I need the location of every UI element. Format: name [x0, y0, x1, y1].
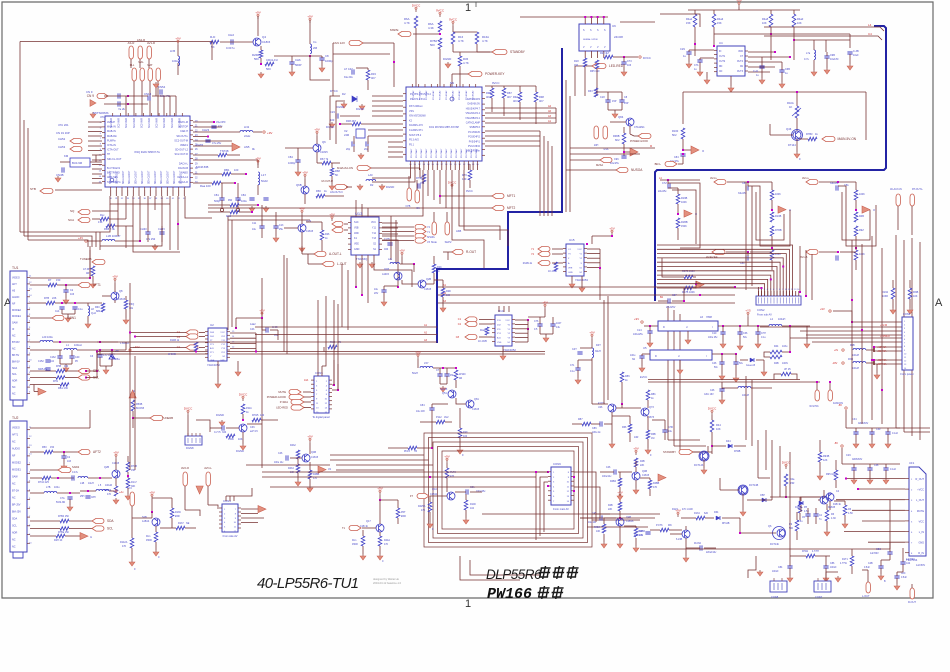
svg-text:30K: 30K — [131, 485, 136, 488]
ground c21 — [761, 78, 763, 80]
svg-text:C84: C84 — [778, 566, 783, 569]
wire bottom right verticals c — [789, 452, 791, 556]
svg-text:C4b: C4b — [250, 328, 255, 331]
wire long horizontal bus a — [97, 351, 545, 353]
svg-text:10u 20V: 10u 20V — [416, 410, 425, 413]
svg-text:4.7TW: 4.7TW — [840, 563, 848, 565]
wire sda2 — [65, 370, 78, 372]
svg-text:C29: C29 — [846, 454, 851, 457]
connector flag MFT2 — [492, 205, 504, 210]
svg-text:R98: R98 — [539, 95, 544, 99]
wire L4 net to border — [764, 27, 884, 31]
resistor Raa — [212, 181, 221, 185]
svg-text:R9B: R9B — [486, 91, 491, 95]
svg-text:MODE1: MODE1 — [12, 469, 22, 472]
wire nf row — [30, 302, 46, 304]
resistor R6Q 10k — [124, 300, 128, 309]
wire adr down — [34, 391, 38, 393]
wire blk3 loop b — [842, 192, 870, 240]
svg-text:R4B: R4B — [859, 215, 864, 218]
wire u4 bottom — [730, 76, 732, 86]
svg-text:22u/25v: 22u/25v — [658, 190, 667, 193]
wire bus A1 left — [255, 326, 437, 328]
svg-text:C39: C39 — [876, 428, 881, 431]
svg-text:OUT1: OUT1 — [719, 56, 726, 58]
svg-text:100u 25v: 100u 25v — [708, 337, 718, 339]
svg-text:500p: 500p — [214, 199, 220, 203]
ground l4 right — [806, 342, 808, 344]
wire bus loop 2 — [429, 438, 588, 543]
svg-text:TU2: TU2 — [12, 416, 19, 420]
svg-text:104: 104 — [470, 507, 475, 510]
potentiometer R10A — [795, 106, 799, 118]
svg-text:NUSOA: NUSOA — [631, 168, 643, 172]
svg-text:R44A: R44A — [384, 539, 390, 542]
resistor R16A 4.7K — [475, 32, 479, 44]
wire blk1 loop — [668, 183, 700, 248]
wire left loop vertical — [19, 42, 21, 233]
svg-text:R4a1: R4a1 — [686, 17, 693, 21]
capacitor C4T — [577, 352, 582, 354]
svg-text:DCT14b: DCT14b — [770, 543, 780, 546]
svg-text:C1B1b: C1B1b — [626, 520, 634, 523]
svg-text:NC: NC — [12, 539, 16, 542]
wire right top bundle down x752 — [751, 186, 753, 286]
capacitor CH23 — [211, 126, 216, 128]
svg-text:AN-OUT-N: AN-OUT-N — [330, 190, 343, 194]
junction rails — [851, 321, 853, 323]
wire q5c vcc — [446, 463, 448, 468]
ground con6 below — [876, 373, 878, 375]
svg-text:C1815: C1815 — [320, 150, 328, 154]
svg-text:22K: 22K — [608, 508, 613, 511]
wire dvcc u6 — [625, 56, 638, 58]
wire crystal — [90, 161, 102, 163]
resistor R38 — [352, 122, 361, 126]
wire q17 base — [362, 527, 376, 529]
wire long vertical right2 — [751, 380, 753, 446]
wire C4 net to border — [764, 36, 882, 40]
svg-text:R4B4: R4B4 — [610, 480, 617, 483]
svg-text:MAT: MAT — [147, 63, 153, 67]
wire power rail 4 — [806, 334, 902, 336]
junction right — [309, 55, 311, 57]
capacitor CN2B — [62, 167, 64, 172]
wire r9b — [796, 512, 798, 520]
resistor R26 1k — [320, 230, 324, 240]
resistor R113 7R — [408, 446, 417, 450]
wire rb1 — [193, 173, 222, 175]
capacitor C8Hb — [85, 496, 90, 498]
wire q6b — [304, 179, 306, 186]
svg-text:470: 470 — [122, 545, 127, 548]
connector flag TUNERB2 — [150, 415, 163, 420]
connector CON5 — [314, 376, 329, 413]
transistor Q24 — [298, 224, 306, 232]
wire CAPU row — [193, 121, 214, 123]
svg-text:designed by Weitai He: designed by Weitai He — [373, 577, 399, 581]
svg-text:150: 150 — [64, 365, 69, 368]
diode D64 — [716, 516, 720, 520]
svg-text:VCC: VCC — [577, 249, 582, 251]
resistor R4B 100N — [770, 355, 782, 359]
transistor Q7a A101B — [608, 404, 616, 412]
ground power caps b — [739, 344, 741, 346]
resistor PCT6 — [660, 528, 669, 532]
wire d64 out — [722, 517, 740, 519]
svg-text:AFT1: AFT1 — [93, 283, 101, 287]
svg-text:R4a0: R4a0 — [797, 17, 804, 21]
capacitor C119 — [418, 183, 420, 188]
connector flag MFT1 — [492, 193, 504, 198]
resistor R74B 15K — [126, 462, 130, 472]
transistor Q6 — [313, 144, 321, 152]
svg-text:R70: R70 — [462, 173, 467, 177]
svg-text:D1845: D1845 — [828, 506, 836, 509]
svg-text:AGDO: AGDO — [12, 296, 19, 299]
wire c47 — [356, 67, 368, 69]
svg-text:R_OUT: R_OUT — [916, 478, 925, 481]
wire fan12v — [363, 42, 394, 44]
capacitor C87 23u — [668, 298, 670, 303]
capacitor C8C tda2 — [900, 562, 905, 564]
resistor R140A 470 — [114, 486, 118, 496]
svg-text:VIDEO: VIDEO — [12, 427, 20, 430]
svg-text:L5Y: L5Y — [424, 361, 429, 365]
inductor L5c 100uR — [96, 489, 109, 491]
wire rh5 — [115, 225, 133, 227]
svg-text:SC2-IN-R: SC2-IN-R — [149, 118, 151, 128]
capacitor C46 GSU — [719, 389, 724, 391]
svg-text:SC2-IN-R: SC2-IN-R — [126, 118, 128, 128]
capacitor C8 15P — [619, 100, 624, 102]
svg-text:C8H: C8H — [91, 497, 96, 499]
connector flag STANDBY mid — [679, 449, 693, 454]
svg-text:SDA: SDA — [107, 519, 114, 523]
connector flag PLL — [132, 68, 136, 81]
power +9V r26 — [331, 218, 333, 221]
wire pin top b — [163, 96, 165, 116]
wire mft2 — [208, 207, 446, 209]
wire c8c2 — [902, 548, 904, 562]
resistor R2H 1K — [56, 534, 65, 538]
wire mid horizontal y216 left — [228, 215, 390, 217]
red arrow blk2 — [778, 206, 786, 213]
ground r1t3a — [429, 522, 431, 524]
connector flag AVO-R — [183, 472, 187, 486]
svg-text:R425A: R425A — [418, 505, 426, 508]
wire plt5 — [465, 494, 467, 500]
svg-text:C4B: C4B — [868, 562, 873, 565]
svg-text:SC2-IN-R: SC2-IN-R — [141, 118, 143, 128]
wire l8 — [87, 303, 89, 306]
svg-text:R4B4: R4B4 — [594, 526, 601, 529]
svg-text:12: 12 — [791, 289, 793, 291]
capacitor C?u14 b — [550, 324, 555, 326]
svg-text:D: D — [663, 326, 665, 329]
ground left flag — [92, 112, 94, 114]
svg-text:0.1u: 0.1u — [570, 370, 575, 373]
wire ic1 bottom right d — [185, 196, 212, 218]
svg-text:POWER-GOOD: POWER-GOOD — [630, 140, 648, 143]
transistor Q2C 2N5401 — [152, 518, 160, 526]
svg-text:STB: STB — [30, 187, 36, 191]
svg-text:150K: 150K — [681, 225, 687, 228]
inductor L9B 100uH rail — [853, 348, 866, 350]
wire con5 top wires — [317, 366, 319, 373]
svg-text:A7.DN5: A7.DN5 — [83, 268, 92, 271]
svg-text:1047: 1047 — [556, 322, 562, 325]
wire right bundle b — [903, 240, 905, 432]
svg-text:C46: C46 — [712, 362, 717, 365]
wire q6w base — [600, 471, 614, 473]
svg-text:LED-RED: LED-RED — [276, 406, 288, 410]
svg-text:Y12: Y12 — [372, 232, 377, 235]
svg-text:680: 680 — [96, 310, 101, 313]
resistor R33L — [366, 70, 370, 80]
wire con2 bend — [196, 420, 210, 432]
wire u11 feed 2 — [395, 220, 397, 264]
svg-text:CH7: CH7 — [761, 332, 766, 335]
svg-text:10u: 10u — [668, 430, 673, 433]
resistor RW1 row a — [230, 203, 239, 207]
connector flag Y2 U11 — [332, 227, 343, 232]
wire u6 down long b — [596, 69, 598, 96]
wire u11 to bus b — [361, 255, 363, 295]
resistor R137 NE — [176, 526, 185, 530]
svg-text:CN 9: CN 9 — [87, 94, 94, 98]
resistor R192 103R — [891, 288, 895, 299]
wire row8 long — [193, 159, 258, 161]
wire c29 — [689, 49, 714, 51]
wire CH6 — [291, 56, 293, 62]
connector flag AV4R-OFF — [712, 249, 725, 254]
power +9V q6b — [304, 176, 306, 179]
svg-text:PC1/54F/D: PC1/54F/D — [468, 131, 480, 134]
svg-text:K1/AMS-5T1: K1/AMS-5T1 — [409, 129, 423, 132]
svg-text:C14: C14 — [637, 329, 642, 332]
inductor L1B — [102, 239, 115, 241]
resistor R4B6b 470 — [648, 480, 652, 489]
connector flag q17 in — [349, 525, 361, 530]
resistor R4B4b — [618, 478, 622, 487]
svg-text:470: 470 — [384, 543, 389, 546]
svg-text:R-OUT: R-OUT — [466, 250, 476, 254]
power +9V upper audio — [401, 254, 403, 257]
resistor R6b 4.3K — [825, 510, 829, 521]
red -18V circle — [842, 362, 844, 364]
connector flag AV1-L blk3 — [806, 179, 818, 184]
svg-text:RNB: RNB — [913, 291, 919, 294]
ground c9b — [826, 68, 828, 70]
wire q5c base — [430, 495, 447, 497]
capacitor C2 aft — [63, 290, 68, 292]
resistor blk2 R7BB — [770, 226, 774, 236]
svg-text:Rnn: Rnn — [146, 535, 151, 538]
ground c6b — [781, 82, 783, 84]
power DVCC clusterB — [785, 466, 787, 469]
svg-text:N5TS06MS: N5TS06MS — [93, 111, 109, 115]
wire cluster to IC right — [310, 56, 330, 80]
svg-text:RNB: RNB — [848, 358, 853, 361]
wire left vert x130 lower — [129, 342, 131, 470]
wire bottom fan of mcu a — [372, 170, 411, 178]
capacitor C7Z 22u — [668, 183, 670, 188]
svg-text:10K: 10K — [596, 530, 601, 533]
multiplexer U15 74HC4053 — [566, 244, 584, 276]
wire tu2 audio 3 — [88, 477, 112, 479]
junction r44 — [711, 445, 713, 447]
capacitor CH83 — [205, 140, 210, 142]
svg-text:MODE2: MODE2 — [12, 462, 22, 465]
ground caps pair — [614, 112, 616, 114]
svg-text:8: 8 — [779, 289, 780, 291]
capacitor C74A — [72, 475, 74, 480]
svg-text:Q81: Q81 — [474, 398, 479, 401]
vertical flag SHP2 — [445, 222, 449, 235]
svg-text:Q2B: Q2B — [426, 278, 431, 281]
capacitor C82 — [235, 198, 240, 200]
ground c8d — [896, 584, 898, 586]
wire green led — [740, 359, 748, 361]
svg-text:BU4.9M: BU4.9M — [72, 161, 83, 165]
svg-text:P5.3 AV2: P5.3 AV2 — [409, 139, 419, 142]
transistor Q5 BCT143 — [739, 486, 747, 494]
wire row7 — [193, 154, 218, 156]
wire bundle right of blue a — [565, 80, 567, 212]
svg-text:NE: NE — [186, 522, 190, 525]
svg-text:XIN M37281M8: XIN M37281M8 — [409, 115, 426, 118]
svg-text:DT144: DT144 — [788, 143, 796, 147]
svg-text:0.5uF: 0.5uF — [901, 577, 907, 579]
resistor R136 — [170, 508, 174, 518]
ground CN54 — [155, 82, 157, 84]
wire c3 — [99, 350, 101, 355]
svg-text:DVCC: DVCC — [330, 89, 338, 93]
ground q con2 — [242, 444, 244, 446]
junction u14 r — [527, 319, 529, 321]
svg-text:DACA-L: DACA-L — [179, 162, 189, 165]
ground c86 bottom — [825, 576, 827, 578]
svg-text:P0.7/AN7: P0.7/AN7 — [465, 148, 468, 158]
connector flag AV1-B blk3 — [806, 249, 818, 254]
junction u2 inputs — [129, 332, 131, 334]
wire u5 gnd stub — [679, 360, 681, 368]
svg-text:CON6: CON6 — [903, 312, 911, 316]
svg-text:1AB1b: 1AB1b — [142, 520, 150, 523]
svg-text:C152: C152 — [38, 360, 44, 363]
wire con5 up bundle a — [317, 300, 319, 366]
wire emitter down — [260, 46, 262, 50]
svg-text:R-D: R-D — [210, 35, 216, 39]
svg-text:0.47u: 0.47u — [72, 471, 79, 474]
svg-text:D4B: D4B — [795, 506, 800, 509]
svg-text:C9B: C9B — [830, 54, 835, 57]
wire caps pair — [607, 92, 609, 100]
ground q4c a — [297, 480, 299, 482]
connector flag POWER-KEY — [468, 71, 482, 76]
ground p49 — [459, 448, 461, 450]
vertical flag aux b — [910, 194, 914, 206]
svg-text:C8C: C8C — [901, 573, 906, 575]
wire q17 c — [379, 500, 381, 524]
junction rw — [251, 211, 253, 213]
wire nf caps gnd — [61, 309, 63, 314]
resistor RH85 100 — [252, 418, 261, 422]
connector TU1 tab — [13, 400, 23, 406]
connector flag MAT — [148, 68, 152, 81]
wire mid verticals x232 — [231, 220, 233, 327]
svg-text:+9V: +9V — [302, 171, 307, 175]
svg-text:+5V: +5V — [542, 301, 547, 305]
svg-text:0206/63V: 0206/63V — [852, 458, 863, 461]
svg-text:SAW1: SAW1 — [67, 316, 76, 320]
svg-text:U4: U4 — [719, 41, 723, 45]
resistor R87 Tk — [582, 422, 591, 426]
svg-text:VSS: VSS — [409, 110, 414, 113]
wire q84 — [610, 121, 626, 123]
svg-text:DGND: DGND — [236, 449, 244, 453]
svg-text:C7Z: C7Z — [662, 182, 667, 185]
svg-text:To digital panel: To digital panel — [312, 415, 330, 419]
svg-text:Q51: Q51 — [442, 392, 447, 395]
wire l9b to con6 — [874, 346, 902, 348]
connector flag q4c out — [318, 466, 326, 473]
svg-text:1: 1 — [757, 289, 758, 291]
svg-text:R7B: R7B — [44, 296, 49, 300]
svg-text:15K: 15K — [717, 21, 722, 25]
wire right col — [819, 440, 821, 452]
connector flag AVO-L — [206, 472, 210, 486]
wire blk1 f — [658, 300, 668, 302]
wire center verticals down b — [341, 264, 343, 327]
connector flag AB-OUT-R — [335, 184, 348, 189]
svg-text:R6B: R6B — [651, 433, 656, 436]
resistor R26D — [259, 50, 263, 58]
svg-text:M12UA4-ON: M12UA4-ON — [337, 166, 353, 170]
connector flag CH52-16P — [70, 138, 82, 143]
wire cluster2 — [623, 127, 625, 133]
svg-text:P49: P49 — [463, 431, 468, 434]
power 9VCC2 — [452, 23, 454, 26]
wire r1t3a — [429, 496, 431, 502]
capacitor CQ13 — [273, 226, 278, 228]
wire u14 right rows — [515, 319, 528, 321]
svg-text:TUNERB: TUNERB — [162, 416, 173, 420]
junction con6 crosses — [535, 471, 537, 473]
svg-text:D64: D64 — [714, 511, 719, 514]
wire r36 — [459, 66, 461, 87]
wire mspe — [413, 33, 440, 35]
svg-text:-18V: -18V — [832, 362, 838, 365]
svg-text:RST 24Mout: RST 24Mout — [409, 105, 423, 108]
ground q7 cluster a — [647, 448, 649, 450]
svg-text:Ya 2k: Ya 2k — [118, 107, 126, 111]
svg-text:150: 150 — [56, 278, 61, 282]
wire rail stubs — [694, 10, 696, 14]
wire right col extra c — [871, 236, 873, 420]
svg-text:IC01 M37281 M8H-XXXSP: IC01 M37281 M8H-XXXSP — [429, 126, 459, 129]
svg-text:P2.4/CA2: P2.4/CA2 — [445, 90, 448, 100]
svg-text:+5V: +5V — [259, 309, 264, 313]
inductor L4 100uH power — [769, 324, 782, 326]
svg-text:R7BB: R7BB — [775, 229, 782, 232]
svg-text:+Av: +Av — [119, 490, 124, 494]
capacitor C84 1000p — [295, 160, 300, 162]
wire r112 — [420, 421, 436, 423]
capacitor C86 100nF — [823, 566, 828, 568]
svg-text:K0/AMS-4Y0: K0/AMS-4Y0 — [409, 124, 423, 127]
